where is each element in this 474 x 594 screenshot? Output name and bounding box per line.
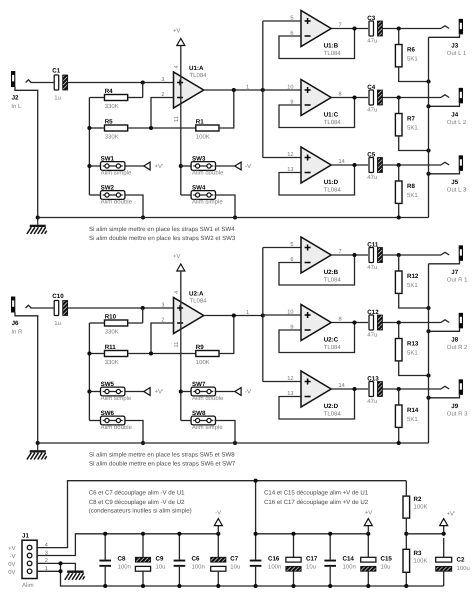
svg-text:C11: C11 bbox=[367, 241, 379, 248]
capacitor C2 (100u) bbox=[436, 538, 470, 586]
resistor R7 (5K1) bbox=[395, 98, 418, 136]
svg-text:R2: R2 bbox=[414, 496, 422, 503]
capacitor C8 (100n) bbox=[99, 534, 130, 586]
note: straps usage bbox=[89, 226, 236, 242]
capacitor C16 (100n) bbox=[250, 534, 282, 586]
junction input bus bbox=[261, 88, 265, 92]
junction bias rail / R11 bbox=[87, 351, 91, 355]
power -V port (at SW7) bbox=[215, 388, 251, 396]
wire U2:C feedback loop bbox=[279, 323, 355, 353]
junction +V rail drop bbox=[254, 479, 258, 483]
op-amp U2:D (TL084) bbox=[301, 371, 341, 417]
svg-text:+V: +V bbox=[173, 253, 181, 260]
junction output node bbox=[397, 387, 401, 391]
svg-text:R8: R8 bbox=[407, 183, 415, 190]
resistor R13 (5K1) bbox=[395, 323, 419, 361]
connector J2 (In L input jack) bbox=[11, 71, 31, 110]
svg-text:C9: C9 bbox=[156, 555, 164, 562]
svg-text:In R: In R bbox=[11, 329, 23, 336]
U2:B pin numbers bbox=[290, 242, 341, 263]
svg-text:J1: J1 bbox=[22, 533, 29, 540]
junction C9 top bbox=[141, 532, 145, 536]
op-amp U2:C (TL084) bbox=[301, 305, 341, 351]
svg-text:C5: C5 bbox=[367, 151, 375, 158]
svg-text:100n: 100n bbox=[118, 564, 131, 571]
svg-text:47u: 47u bbox=[367, 332, 377, 339]
svg-text:C10: C10 bbox=[52, 293, 64, 300]
svg-text:3: 3 bbox=[161, 77, 164, 83]
junction R12 / sleeve bus bbox=[426, 306, 430, 310]
wire +V decoupling rail bbox=[256, 533, 369, 535]
U1:B pin numbers bbox=[290, 15, 341, 36]
junction J4 sleeve / bus bbox=[426, 104, 430, 108]
svg-text:SW7: SW7 bbox=[192, 381, 206, 388]
svg-text:+V: +V bbox=[365, 509, 373, 516]
junction C8 bottom bbox=[103, 584, 107, 588]
svg-text:Out L 3: Out L 3 bbox=[447, 186, 467, 193]
junction R8 / ground bus bbox=[397, 215, 401, 219]
junction bias rail / R5 bbox=[87, 126, 91, 130]
svg-text:C4: C4 bbox=[367, 84, 375, 91]
wire output node to jack tip bbox=[399, 164, 441, 166]
wire output node to jack tip bbox=[399, 28, 441, 30]
op-amp U1:C (TL084) bbox=[301, 80, 341, 126]
svg-text:C15: C15 bbox=[381, 555, 393, 562]
svg-text:14: 14 bbox=[339, 383, 345, 389]
wire U1:B feedback loop bbox=[279, 29, 355, 59]
wire output sleeve bus bbox=[428, 37, 430, 217]
junction C15 bottom bbox=[366, 584, 370, 588]
svg-text:U1:B: U1:B bbox=[324, 42, 339, 49]
svg-text:330K: 330K bbox=[105, 328, 119, 335]
svg-text:100K: 100K bbox=[414, 503, 428, 510]
junction C17 top bbox=[291, 532, 295, 536]
U1:A pin numbers bbox=[161, 65, 249, 122]
junction R7 / sleeve bus bbox=[426, 148, 430, 152]
junction bias rail / SW5 bbox=[87, 389, 91, 393]
U2:D pin numbers bbox=[287, 376, 344, 397]
svg-text:Alim simple: Alim simple bbox=[192, 199, 223, 206]
wire U2:D output bbox=[331, 388, 368, 390]
wire input bus to U1:C pin 10 bbox=[263, 89, 301, 91]
junction SW8 / ground bus bbox=[233, 441, 237, 445]
svg-text:TL084: TL084 bbox=[190, 72, 208, 79]
svg-text:8: 8 bbox=[339, 316, 342, 322]
svg-text:TL084: TL084 bbox=[324, 344, 342, 351]
junction input bus bbox=[261, 313, 265, 317]
svg-text:8: 8 bbox=[339, 91, 342, 97]
wire J6 sleeve to ground bus bbox=[15, 312, 38, 443]
svg-text:Si alim double mettre en pla: Si alim double mettre en place les strap… bbox=[89, 460, 236, 467]
wire tip contact to C10 bbox=[30, 307, 54, 309]
wire U2:B output bbox=[331, 254, 368, 256]
svg-text:J4: J4 bbox=[451, 111, 458, 118]
J1 net labels bbox=[8, 545, 15, 576]
junction J5 sleeve / bus bbox=[426, 172, 430, 176]
junction R2/R3 node bbox=[404, 532, 408, 536]
svg-text:Alim double: Alim double bbox=[192, 170, 224, 177]
svg-text:-V: -V bbox=[245, 389, 251, 396]
connector J8 (Out R 2) bbox=[441, 313, 468, 351]
svg-text:1u: 1u bbox=[54, 320, 61, 327]
svg-text:+V: +V bbox=[173, 28, 181, 35]
svg-text:C17: C17 bbox=[306, 555, 318, 562]
wire J5 sleeve bbox=[429, 171, 460, 174]
junction output node bbox=[397, 163, 401, 167]
U2:A pin numbers bbox=[161, 291, 249, 348]
svg-text:R6: R6 bbox=[407, 47, 415, 54]
wire input bus to U2:C pin 10 bbox=[263, 314, 301, 316]
junction C6 bottom bbox=[177, 584, 181, 588]
svg-text:C7: C7 bbox=[230, 555, 238, 562]
resistor R3 (100K) bbox=[403, 549, 428, 586]
wire U2:B feedback loop bbox=[279, 255, 355, 285]
svg-text:R1: R1 bbox=[196, 119, 204, 126]
wire R8 to ground bus bbox=[398, 203, 400, 217]
wire J9 sleeve bbox=[429, 395, 460, 398]
op-amp U1:A (TL084) bbox=[174, 65, 208, 108]
svg-text:R11: R11 bbox=[105, 344, 117, 351]
resistor R12 (5K1) bbox=[395, 255, 419, 293]
resistor R14 (5K1) bbox=[395, 389, 419, 427]
power -V port (decoupling rail) bbox=[214, 509, 222, 534]
jumper SW7 (Alim double) bbox=[181, 381, 224, 402]
svg-text:0V: 0V bbox=[8, 569, 15, 576]
wire J1 pin1 (0V) to ground bus bbox=[37, 571, 444, 586]
junction SW4 / ground bus bbox=[233, 215, 237, 219]
wire U1:A output to input bus bbox=[204, 89, 263, 91]
svg-text:Alim: Alim bbox=[22, 582, 34, 589]
svg-text:5K1: 5K1 bbox=[407, 416, 418, 423]
svg-text:100u: 100u bbox=[457, 565, 470, 572]
svg-text:C14 et C15 découplage alim +: C14 et C15 découplage alim +V de U1 bbox=[264, 490, 369, 497]
op-amp U2:A (TL084) bbox=[174, 290, 208, 333]
wire J7 sleeve bbox=[429, 261, 460, 264]
junction U2:B output bbox=[352, 253, 356, 257]
svg-text:+V': +V' bbox=[155, 389, 164, 396]
jumper SW8 (Alim simple) bbox=[181, 410, 224, 431]
op-amp U1:B (TL084) bbox=[301, 11, 341, 57]
svg-text:SW8: SW8 bbox=[192, 410, 206, 417]
resistor R4 (330K) bbox=[89, 83, 142, 110]
svg-text:U1:D: U1:D bbox=[324, 179, 339, 186]
svg-text:Alim simple: Alim simple bbox=[192, 424, 223, 431]
junction output node bbox=[397, 26, 401, 30]
svg-text:11: 11 bbox=[174, 116, 180, 122]
wire tip contact to C1 bbox=[30, 82, 54, 84]
wire J1 pin4 (+V) riser and +V rail bbox=[37, 481, 406, 548]
junction feedback node bbox=[149, 351, 153, 355]
svg-text:SW1: SW1 bbox=[101, 156, 115, 163]
ground bbox=[27, 215, 47, 234]
junction C7 top bbox=[216, 532, 220, 536]
jumper SW3 (Alim double) bbox=[181, 156, 224, 177]
wire J2 sleeve to ground bus bbox=[15, 87, 38, 218]
capacitor C3 (47u) bbox=[367, 15, 382, 45]
wire output node to jack tip bbox=[399, 322, 441, 324]
svg-text:Out R 1: Out R 1 bbox=[447, 276, 468, 283]
svg-text:U1:A: U1:A bbox=[189, 65, 204, 72]
capacitor C6 (100n) bbox=[174, 534, 205, 586]
jumper SW4 (Alim simple) bbox=[181, 185, 224, 206]
wire R1 to U1:A output bbox=[219, 90, 234, 128]
capacitor C12 (47u) bbox=[367, 309, 382, 339]
svg-text:10u: 10u bbox=[381, 564, 391, 571]
svg-text:7: 7 bbox=[339, 22, 342, 28]
connector J5 (Out L 3) bbox=[441, 155, 467, 193]
junction J8 sleeve / bus bbox=[426, 329, 430, 333]
wire U2:A output to input bus bbox=[204, 315, 263, 317]
svg-text:100K: 100K bbox=[196, 359, 210, 366]
svg-text:C8 et C9 découplage alim -V: C8 et C9 découplage alim -V de U2 bbox=[89, 499, 185, 506]
svg-text:C1: C1 bbox=[52, 68, 60, 75]
svg-text:C12: C12 bbox=[367, 309, 379, 316]
jumper SW6 (Alim double) bbox=[89, 410, 132, 431]
svg-text:C16 et C17 découplage alim +: C16 et C17 découplage alim +V de U2 bbox=[264, 499, 369, 506]
capacitor C5 (47u) bbox=[367, 151, 382, 181]
svg-text:5K1: 5K1 bbox=[407, 282, 418, 289]
svg-text:J3: J3 bbox=[451, 42, 458, 49]
wire tie pins 1-2 bbox=[60, 563, 62, 571]
wire output node to jack tip bbox=[399, 388, 441, 390]
junction C8 top bbox=[103, 532, 107, 536]
svg-text:100n: 100n bbox=[268, 564, 281, 571]
wire output node to jack tip bbox=[399, 97, 441, 99]
svg-text:47u: 47u bbox=[367, 107, 377, 114]
svg-text:5K1: 5K1 bbox=[407, 192, 418, 199]
svg-text:Alim double: Alim double bbox=[192, 395, 224, 402]
junction bias rail / SW1 bbox=[87, 164, 91, 168]
wire R5 to R1 bbox=[128, 127, 196, 129]
junction U1:B output bbox=[352, 26, 356, 30]
wire J1 pin2 (0V) to chassis ground bbox=[37, 563, 75, 570]
svg-text:10: 10 bbox=[287, 84, 293, 90]
wire C10 to node A / pin 3 bbox=[68, 307, 174, 309]
svg-text:100n: 100n bbox=[192, 564, 205, 571]
jumper SW5 (Alim simple) bbox=[89, 381, 132, 402]
svg-text:14: 14 bbox=[339, 159, 345, 165]
svg-text:Out R 2: Out R 2 bbox=[447, 344, 468, 351]
capacitor C10 (1u) bbox=[52, 293, 67, 327]
wire R12 to sleeve bus bbox=[399, 293, 429, 308]
junction U2:D output bbox=[352, 387, 356, 391]
svg-text:SW3: SW3 bbox=[192, 156, 206, 163]
junction feedback node bbox=[149, 126, 153, 130]
junction R6 / sleeve bus bbox=[426, 79, 430, 83]
svg-text:R4: R4 bbox=[105, 88, 113, 95]
capacitor C13 (47u) bbox=[367, 375, 382, 405]
capacitor C14 (100n) bbox=[324, 534, 355, 586]
svg-text:C14: C14 bbox=[343, 555, 355, 562]
svg-text:3: 3 bbox=[161, 302, 164, 308]
wire J3 sleeve bbox=[429, 34, 460, 37]
wire J1 pin3 (-V) riser and -V rail bbox=[37, 534, 218, 556]
wire ground bus bbox=[38, 442, 429, 444]
svg-text:Si alim simple mettre en pla: Si alim simple mettre en place les strap… bbox=[89, 226, 235, 233]
power +V' port (at SW1) bbox=[125, 162, 163, 170]
junction C9 bottom bbox=[141, 584, 145, 588]
capacitor C15 (10u) bbox=[361, 534, 393, 586]
svg-text:U2:C: U2:C bbox=[324, 336, 339, 343]
svg-text:In L: In L bbox=[11, 103, 22, 110]
svg-text:C8: C8 bbox=[118, 555, 126, 562]
svg-text:C2: C2 bbox=[457, 557, 465, 564]
svg-text:(condensateurs inutiles si ali: (condensateurs inutiles si alim simple) bbox=[89, 507, 192, 514]
ground bbox=[27, 441, 47, 460]
U1:C pin numbers bbox=[287, 84, 341, 105]
junction C7 bottom bbox=[216, 584, 220, 588]
svg-text:R7: R7 bbox=[407, 116, 415, 123]
resistor R9 (100K) bbox=[196, 344, 219, 366]
wire SW2 to ground bus bbox=[125, 195, 143, 218]
junction U2:A output bbox=[232, 313, 236, 317]
wire SW4 to ground bus bbox=[215, 195, 235, 218]
svg-text:+V': +V' bbox=[155, 163, 164, 170]
connector J1 (Alim) bbox=[22, 533, 37, 589]
svg-text:U2:D: U2:D bbox=[324, 403, 339, 410]
svg-text:J2: J2 bbox=[12, 95, 19, 102]
svg-text:J7: J7 bbox=[451, 269, 458, 276]
wire U1:C feedback loop bbox=[279, 98, 355, 128]
wire R6 to sleeve bus bbox=[399, 67, 429, 82]
wire +V rail drop to decoupling rail bbox=[255, 481, 257, 534]
junction J9 sleeve / bus bbox=[426, 396, 430, 400]
capacitor C7 (10u) bbox=[211, 534, 241, 586]
svg-text:5: 5 bbox=[290, 242, 293, 248]
wire R9 to U2:A output bbox=[219, 316, 234, 354]
svg-text:10: 10 bbox=[287, 309, 293, 315]
connector J6 (In R input jack) bbox=[11, 297, 31, 336]
connector J7 (Out R 1) bbox=[441, 245, 468, 283]
svg-text:12: 12 bbox=[287, 152, 293, 158]
junction output node bbox=[397, 95, 401, 99]
svg-text:R14: R14 bbox=[407, 407, 419, 414]
svg-text:J9: J9 bbox=[451, 403, 458, 410]
junction C6 top bbox=[177, 532, 181, 536]
svg-text:SW2: SW2 bbox=[101, 185, 115, 192]
svg-text:C3: C3 bbox=[367, 15, 375, 22]
U2:C pin numbers bbox=[287, 309, 341, 330]
connector J3 (Out L 1) bbox=[441, 19, 467, 57]
wire input bus to U1:D pin 12 bbox=[263, 157, 301, 159]
wire R7 to sleeve bus bbox=[399, 136, 429, 151]
svg-text:+V': +V' bbox=[447, 511, 456, 518]
svg-text:Alim double: Alim double bbox=[101, 199, 133, 206]
junction R14 / ground bus bbox=[397, 441, 401, 445]
wire U1:C output bbox=[331, 97, 368, 99]
jumper SW1 (Alim simple) bbox=[89, 156, 132, 177]
wire +V to U1:A pin4/pin11 to SW4 bbox=[180, 45, 182, 195]
wire SW6 to ground bus bbox=[125, 421, 143, 444]
wire SW8 to ground bus bbox=[215, 421, 235, 444]
resistor R8 (5K1) bbox=[395, 165, 418, 203]
svg-text:47u: 47u bbox=[367, 38, 377, 45]
svg-text:Si alim double mettre en pla: Si alim double mettre en place les strap… bbox=[89, 235, 236, 242]
capacitor C17 (10u) bbox=[286, 534, 318, 586]
svg-text:U1:C: U1:C bbox=[324, 111, 339, 118]
svg-text:SW4: SW4 bbox=[192, 185, 206, 192]
wire C3 to output node bbox=[382, 28, 398, 30]
svg-text:-V: -V bbox=[245, 163, 251, 170]
junction C14 top bbox=[328, 532, 332, 536]
resistor R11 (330K) bbox=[89, 344, 127, 366]
svg-text:5K1: 5K1 bbox=[407, 125, 418, 132]
junction C14 bottom bbox=[328, 584, 332, 588]
resistor R2 (100K) bbox=[403, 481, 428, 518]
wire bias rail (left) bbox=[88, 98, 90, 196]
svg-text:7: 7 bbox=[339, 249, 342, 255]
power +V port (decoupling rail) bbox=[364, 509, 372, 534]
junction C15 top bbox=[366, 532, 370, 536]
svg-text:12: 12 bbox=[287, 376, 293, 382]
svg-text:330K: 330K bbox=[105, 103, 119, 110]
resistor R10 (330K) bbox=[89, 308, 142, 335]
svg-text:R12: R12 bbox=[407, 273, 419, 280]
svg-text:0V: 0V bbox=[8, 561, 15, 568]
junction SW6 / ground bus bbox=[141, 441, 145, 445]
svg-text:TL084: TL084 bbox=[190, 298, 208, 305]
junction C16 top bbox=[254, 532, 258, 536]
wire R2 to R3 node bbox=[405, 518, 407, 549]
svg-text:SW6: SW6 bbox=[101, 410, 115, 417]
wire C4 to output node bbox=[382, 97, 398, 99]
svg-text:11: 11 bbox=[174, 342, 180, 348]
svg-text:J6: J6 bbox=[12, 320, 19, 327]
wire R11 to R9 bbox=[128, 353, 196, 355]
junction node A bbox=[141, 80, 145, 84]
wire C5 to output node bbox=[382, 164, 398, 166]
junction SW2 / ground bus bbox=[141, 215, 145, 219]
junction U1:A output bbox=[232, 88, 236, 92]
svg-text:C6 et C7 découplage alim -V: C6 et C7 découplage alim -V de U1 bbox=[89, 490, 185, 497]
junction power rail / SW3 bbox=[179, 164, 183, 168]
svg-text:5K1: 5K1 bbox=[407, 56, 418, 63]
wire input bus to U1:B pin 5 bbox=[263, 20, 301, 22]
svg-text:TL084: TL084 bbox=[324, 50, 342, 57]
wire C12 to output node bbox=[382, 322, 398, 324]
svg-text:U2:A: U2:A bbox=[189, 290, 204, 297]
svg-text:5K1: 5K1 bbox=[407, 350, 418, 357]
capacitor C9 (10u) bbox=[135, 534, 165, 586]
capacitor C11 (47u) bbox=[367, 241, 382, 271]
svg-text:1u: 1u bbox=[54, 95, 61, 102]
resistor R1 (100K) bbox=[196, 119, 219, 141]
svg-text:SW5: SW5 bbox=[101, 381, 115, 388]
junction node A bbox=[141, 306, 145, 310]
svg-text:Alim simple: Alim simple bbox=[101, 170, 132, 177]
svg-text:TL084: TL084 bbox=[324, 119, 342, 126]
power +V' port (half supply) bbox=[440, 511, 455, 534]
svg-text:Out L 1: Out L 1 bbox=[447, 50, 467, 57]
note: decoupling -V bbox=[89, 490, 192, 515]
wire U1:A pin 2 feedback node bbox=[151, 98, 174, 129]
resistor R5 (330K) bbox=[89, 119, 127, 141]
svg-text:C6: C6 bbox=[192, 555, 200, 562]
junction output node bbox=[397, 253, 401, 257]
junction power rail / SW7 bbox=[179, 389, 183, 393]
svg-text:47u: 47u bbox=[367, 264, 377, 271]
svg-text:Alim double: Alim double bbox=[101, 424, 133, 431]
svg-text:100n: 100n bbox=[343, 564, 356, 571]
wire output node to jack tip bbox=[399, 254, 441, 256]
wire C11 to output node bbox=[382, 254, 398, 256]
wire C13 to output node bbox=[382, 388, 398, 390]
wire J8 sleeve bbox=[429, 328, 460, 331]
junction tie/pin1 bbox=[58, 569, 62, 573]
U1:D pin numbers bbox=[287, 152, 344, 173]
svg-text:-V: -V bbox=[215, 509, 221, 516]
wire U2:D feedback loop bbox=[279, 389, 355, 419]
